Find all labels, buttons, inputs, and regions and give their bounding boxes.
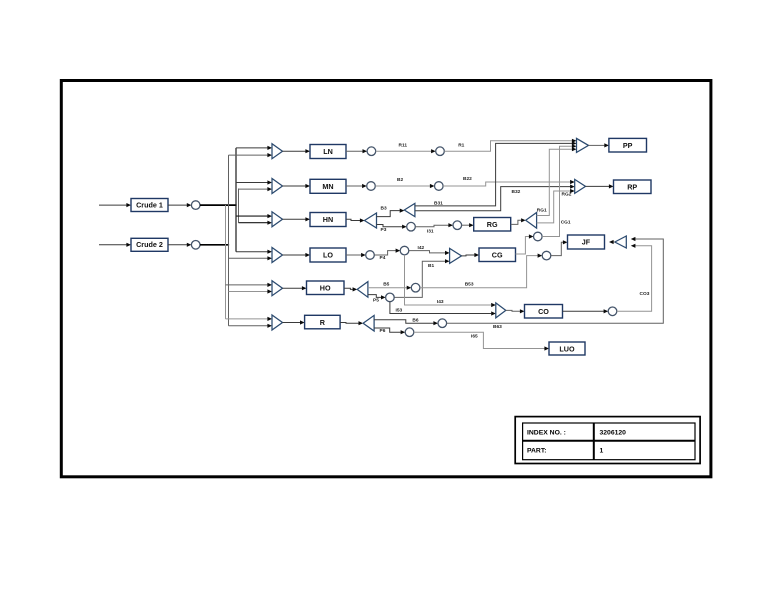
wire LO to node P4: [346, 253, 366, 257]
mixer row6 R: [272, 315, 283, 330]
block CG: [479, 248, 516, 262]
wire RG2 to RP mixer: [537, 189, 575, 223]
wire mixer to MN: [283, 184, 311, 188]
svg-text:RP: RP: [627, 183, 637, 192]
wire CG to node: [516, 234, 534, 254]
svg-text:RG2: RG2: [562, 192, 572, 198]
title block inner: [523, 423, 695, 460]
block LUO: [549, 342, 585, 355]
svg-text:PP: PP: [623, 141, 633, 150]
wire bus vertical 3: [235, 148, 237, 252]
svg-text:CO3: CO3: [640, 291, 650, 297]
svg-text:R: R: [320, 318, 326, 327]
wire CO3 to JF right mixer: [617, 244, 652, 312]
svg-text:HO: HO: [320, 284, 331, 293]
svg-text:MN: MN: [322, 182, 333, 191]
wire P6: [374, 328, 405, 334]
svg-text:Crude 2: Crude 2: [136, 240, 163, 249]
title block divider horizontal: [523, 440, 695, 442]
svg-text:LO: LO: [323, 251, 333, 260]
block MN: [310, 179, 346, 193]
wire P5: [368, 295, 386, 300]
wire mixer to LO: [283, 253, 311, 257]
wire B3 branch: [377, 209, 405, 217]
node RG in: [453, 221, 462, 230]
node row1 a: [367, 147, 376, 156]
svg-text:JF: JF: [582, 238, 591, 247]
mixer row3 HN: [272, 212, 283, 227]
wire B5: [368, 286, 411, 290]
mixer RP: [575, 179, 586, 193]
svg-text:P3: P3: [381, 227, 387, 233]
wire R to splitter: [340, 321, 363, 325]
svg-text:R1: R1: [458, 142, 464, 148]
svg-text:CO: CO: [538, 307, 549, 316]
block HO: [307, 281, 345, 295]
wire MN to node: [346, 184, 367, 188]
svg-text:CG1: CG1: [561, 219, 571, 225]
wire mixer to R: [283, 320, 305, 324]
node H2: [400, 246, 409, 255]
wire CG1 to PP mixer: [542, 144, 576, 236]
wire LN to node: [346, 149, 367, 153]
block HN: [310, 213, 346, 227]
mixer row4 LO: [272, 248, 283, 263]
wire B1 to CG mixer: [394, 259, 449, 297]
block RG: [474, 218, 511, 232]
splitter RG: [526, 213, 537, 229]
node P6: [405, 328, 414, 337]
svg-text:B1: B1: [428, 263, 434, 269]
wire B32 to RP mixer: [415, 185, 575, 211]
wire I65 to LUO: [414, 332, 549, 350]
wire crude1 feed: [99, 203, 131, 207]
svg-text:I43: I43: [437, 299, 444, 305]
mixer CG: [450, 248, 462, 263]
block PP: [609, 138, 647, 152]
wire stub row4 upper: [236, 250, 272, 254]
svg-text:CG: CG: [492, 251, 503, 260]
wire B6: [374, 320, 438, 326]
wire PP mixer to PP: [589, 143, 609, 147]
block RP: [614, 180, 652, 194]
splitter B3: [404, 203, 415, 216]
svg-text:LUO: LUO: [559, 344, 575, 353]
wire bus vertical 4: [238, 189, 240, 223]
title block outer: [515, 417, 700, 464]
svg-text:RG1: RG1: [537, 208, 547, 214]
wire RG1 to PP mixer: [537, 147, 577, 215]
wire B31 to PP mixer: [415, 141, 577, 206]
block R: [305, 315, 341, 329]
svg-text:P5: P5: [373, 297, 379, 303]
wire B2: [375, 184, 434, 188]
wire stub row5 upper: [226, 283, 273, 287]
block JF: [568, 235, 605, 249]
node P5: [386, 293, 395, 302]
block LN: [310, 145, 346, 159]
wire P3 branch: [377, 225, 407, 229]
wire HN to splitter: [346, 218, 365, 222]
wire R11: [376, 149, 436, 153]
svg-text:LN: LN: [323, 147, 333, 156]
block Crude 2: [131, 238, 168, 251]
wire crude1 trunk: [200, 204, 237, 206]
wire stub row2 upper: [236, 180, 272, 184]
wire stub row2 lower: [239, 187, 273, 191]
node crude2: [191, 241, 200, 250]
wire P4 to node H2: [374, 249, 400, 256]
wire stub row6 lower: [229, 324, 273, 328]
mixer PP: [577, 138, 589, 152]
wire CO to node: [563, 309, 609, 313]
block CO: [525, 305, 563, 319]
wire stub row3 upper: [236, 214, 272, 218]
svg-text:PART:: PART:: [527, 448, 547, 455]
wire R1 to PP mixer: [444, 139, 576, 152]
svg-text:B32: B32: [512, 189, 521, 195]
title block divider vertical: [593, 423, 595, 460]
wire CO mixer to CO: [506, 309, 525, 313]
wire stub row4 lower: [229, 256, 273, 260]
splitter HN: [365, 213, 377, 228]
node P4: [366, 251, 375, 260]
wire bus vertical 1: [225, 205, 227, 319]
wire mixer to HO: [283, 286, 307, 290]
wire I31: [415, 223, 453, 227]
wire Crude2 to node: [168, 243, 191, 247]
wire HO to splitter: [344, 287, 357, 291]
splitter HO: [357, 282, 368, 298]
svg-text:HN: HN: [323, 215, 333, 224]
border frame: [61, 81, 711, 477]
svg-text:R11: R11: [399, 142, 408, 148]
svg-text:P4: P4: [380, 255, 386, 261]
wire RP mixer to RP: [586, 184, 614, 188]
wire JF mixer to JF: [609, 240, 615, 244]
wire I43 to CO mixer: [405, 255, 496, 307]
svg-text:B53: B53: [465, 281, 474, 287]
wire CG mixer to CG: [462, 253, 480, 257]
node row1 b: [436, 147, 445, 156]
svg-text:1: 1: [600, 448, 604, 455]
node CG out: [534, 232, 543, 241]
svg-text:P6: P6: [380, 328, 386, 334]
wire stub row1 upper: [236, 146, 272, 150]
wire crude2 feed: [99, 243, 131, 247]
wire B63 to JF right mixer: [447, 237, 664, 323]
node B6: [438, 319, 447, 328]
svg-text:B22: B22: [463, 176, 472, 182]
mixer row2 MN: [272, 179, 283, 194]
node P3: [407, 222, 416, 231]
svg-text:I53: I53: [396, 308, 403, 314]
mixer CO: [496, 303, 506, 318]
block LO: [310, 248, 346, 262]
svg-text:B31: B31: [434, 200, 443, 206]
wire B53 to JF node: [420, 254, 542, 288]
node row2 b: [435, 182, 444, 191]
wire stub row1 lower: [229, 153, 273, 157]
svg-text:I65: I65: [471, 333, 478, 339]
svg-text:RG: RG: [487, 220, 498, 229]
node JF in: [542, 251, 551, 260]
block Crude 1: [131, 199, 168, 212]
mixer row5 HO: [272, 281, 283, 296]
wire mixer to LN: [283, 149, 311, 153]
wire stub row6 upper: [226, 317, 273, 321]
svg-text:I31: I31: [427, 229, 434, 235]
mixer row1 LN: [272, 144, 283, 159]
wire RG to splitter: [511, 218, 526, 224]
wire B22 to RP mixer: [443, 180, 575, 186]
svg-text:INDEX NO. :: INDEX NO. :: [527, 430, 566, 437]
wire stub row3 lower: [239, 221, 273, 225]
node B5: [411, 283, 420, 292]
wire H2 to CG mixer: [409, 251, 450, 255]
svg-text:B63: B63: [493, 324, 502, 330]
svg-text:B3: B3: [381, 205, 387, 211]
svg-text:B2: B2: [397, 177, 403, 183]
splitter R: [363, 315, 374, 331]
svg-text:3206120: 3206120: [600, 430, 627, 437]
wire crude2 trunk: [200, 244, 229, 246]
wire node to RG: [462, 223, 474, 227]
node crude1: [191, 201, 200, 210]
svg-text:B6: B6: [412, 317, 418, 323]
wire bus vertical 2: [228, 155, 230, 326]
node row2 a: [367, 182, 376, 191]
wire stub row5 lower: [229, 289, 273, 293]
wire node to JF: [551, 240, 568, 255]
svg-text:B5: B5: [383, 282, 389, 288]
svg-text:Crude 1: Crude 1: [136, 200, 163, 209]
wire I53 to CO mixer: [390, 302, 496, 316]
node CO out: [608, 307, 617, 316]
wire mixer to HN: [283, 217, 311, 221]
wire Crude1 to node: [168, 203, 191, 207]
mixer JF right: [615, 236, 627, 248]
